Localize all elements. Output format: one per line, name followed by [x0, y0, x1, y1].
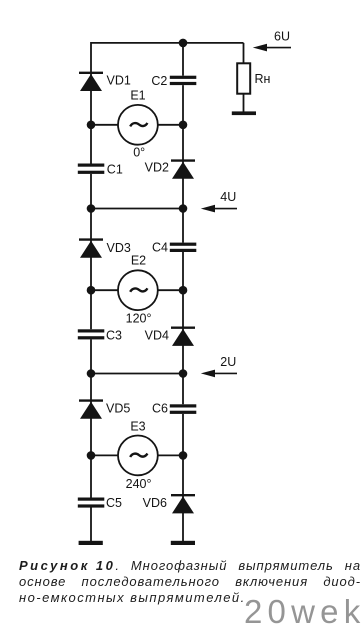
svg-text:120°: 120° — [126, 312, 152, 326]
svg-text:VD5: VD5 — [106, 402, 130, 416]
wire: left rail segment 1 (top corner down to C1) — [90, 42, 92, 164]
svg-text:C1: C1 — [107, 162, 123, 176]
svg-text:VD4: VD4 — [145, 329, 169, 343]
AC source E2 — [118, 270, 158, 310]
svg-text:Rн: Rн — [255, 72, 271, 86]
svg-text:E1: E1 — [130, 89, 145, 103]
capacitor C3 — [78, 329, 105, 339]
svg-text:VD3: VD3 — [107, 241, 131, 255]
wire: left rail segment 2 (C1 to C3) — [90, 174, 92, 329]
diode VD2 — [171, 161, 195, 179]
capacitor C5 — [78, 498, 105, 508]
wire: E2 left lead — [91, 289, 118, 291]
arrow: 2U output pointer — [201, 370, 237, 378]
diode VD1 — [79, 73, 103, 91]
wire: 4U output row — [91, 208, 183, 210]
wire: E2 right lead — [158, 289, 183, 291]
diode VD5 — [79, 401, 103, 419]
wire: 2U output row — [91, 373, 183, 375]
node: E1 right terminal — [179, 121, 188, 130]
figure caption — [19, 558, 361, 606]
node: 4U row left — [87, 204, 96, 213]
ground under Rн — [232, 111, 256, 115]
resistor Rн — [237, 63, 250, 93]
watermark 20wek — [244, 595, 363, 628]
node: top bus / right rail junction — [179, 39, 188, 48]
ground at bottom of right rail — [171, 541, 195, 545]
wire: right rail segment 3 (C4 to C6) — [182, 252, 184, 404]
wire: right rail segment 2 (C2 to C4) — [182, 85, 184, 243]
wire: left rail segment 3 (C3 to C5) — [90, 339, 92, 497]
capacitor C4 — [170, 243, 197, 252]
node: E3 right terminal — [179, 451, 188, 460]
ground at bottom of left rail — [79, 541, 103, 545]
arrow: 6U output pointer — [253, 44, 291, 52]
wire: E1 left lead — [91, 124, 118, 126]
AC source E1 — [118, 105, 158, 145]
diode VD6 — [171, 495, 195, 513]
node: E2 left terminal — [87, 286, 96, 295]
capacitor C2 — [170, 76, 197, 85]
svg-text:0°: 0° — [133, 146, 145, 160]
svg-text:C2: C2 — [151, 74, 167, 88]
wire: Rн branch top lead — [243, 43, 245, 63]
svg-text:VD2: VD2 — [145, 161, 169, 175]
svg-text:C5: C5 — [106, 496, 122, 510]
svg-text:240°: 240° — [126, 477, 152, 491]
wire: E1 right lead — [158, 124, 183, 126]
svg-text:E2: E2 — [131, 254, 146, 268]
wire: E3 left lead — [91, 454, 118, 456]
node: 2U row left — [87, 369, 96, 378]
node: E3 left terminal — [87, 451, 96, 460]
wire: left rail segment 4 (C5 to ground) — [90, 508, 92, 542]
svg-text:E3: E3 — [130, 420, 145, 434]
wire: right rail segment 4 (C6 to ground) — [182, 414, 184, 542]
node: 2U row right — [179, 369, 188, 378]
wire: Rн branch bottom lead — [243, 94, 245, 112]
svg-text:VD1: VD1 — [107, 73, 131, 87]
diode VD4 — [171, 328, 195, 346]
svg-text:2U: 2U — [220, 355, 236, 369]
node: E2 right terminal — [179, 286, 188, 295]
svg-text:6U: 6U — [274, 29, 290, 43]
arrow: 4U output pointer — [201, 205, 237, 213]
wire: E3 right lead — [158, 454, 183, 456]
svg-text:C4: C4 — [152, 241, 168, 255]
node: E1 left terminal — [87, 121, 96, 130]
svg-text:VD6: VD6 — [143, 496, 167, 510]
svg-text:4U: 4U — [220, 190, 236, 204]
node: 4U row right — [179, 204, 188, 213]
svg-text:C6: C6 — [152, 401, 168, 415]
svg-text:C3: C3 — [106, 329, 122, 343]
AC source E3 — [118, 436, 158, 476]
wire: right rail segment 1 (top bus to C2) — [182, 43, 184, 76]
capacitor C1 — [78, 164, 105, 174]
capacitor C6 — [170, 404, 197, 414]
diode VD3 — [79, 240, 103, 258]
wire: top bus from left rail to Rн branch — [91, 42, 244, 44]
